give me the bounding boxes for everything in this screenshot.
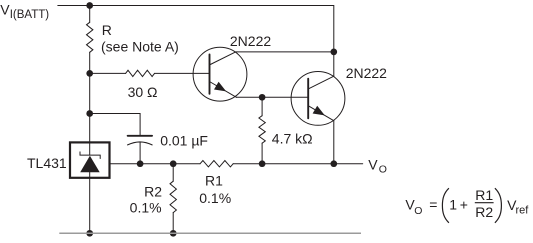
svg-text:4.7 kΩ: 4.7 kΩ	[272, 131, 313, 147]
svg-text:R2: R2	[144, 184, 162, 200]
svg-text:R: R	[102, 22, 112, 38]
svg-text:R2: R2	[475, 204, 493, 220]
svg-text:O: O	[414, 205, 422, 217]
svg-text:+: +	[460, 197, 468, 213]
svg-text:0.01 µF: 0.01 µF	[160, 132, 208, 148]
svg-text:0.1%: 0.1%	[130, 200, 162, 216]
svg-text:2N222: 2N222	[230, 33, 271, 49]
svg-text:0.1%: 0.1%	[199, 190, 231, 206]
svg-text:2N222: 2N222	[346, 65, 387, 81]
svg-text:O: O	[379, 164, 387, 176]
svg-text:TL431: TL431	[27, 155, 67, 171]
svg-text:ref: ref	[516, 204, 530, 216]
svg-text:=: =	[429, 197, 437, 213]
svg-text:V: V	[368, 157, 378, 173]
svg-text:1: 1	[449, 197, 457, 213]
svg-text:30 Ω: 30 Ω	[128, 84, 158, 100]
svg-text:R1: R1	[475, 187, 493, 203]
svg-text:(see Note A): (see Note A)	[101, 39, 179, 55]
svg-text:I(BATT): I(BATT)	[10, 9, 50, 21]
svg-text:R1: R1	[205, 172, 223, 188]
